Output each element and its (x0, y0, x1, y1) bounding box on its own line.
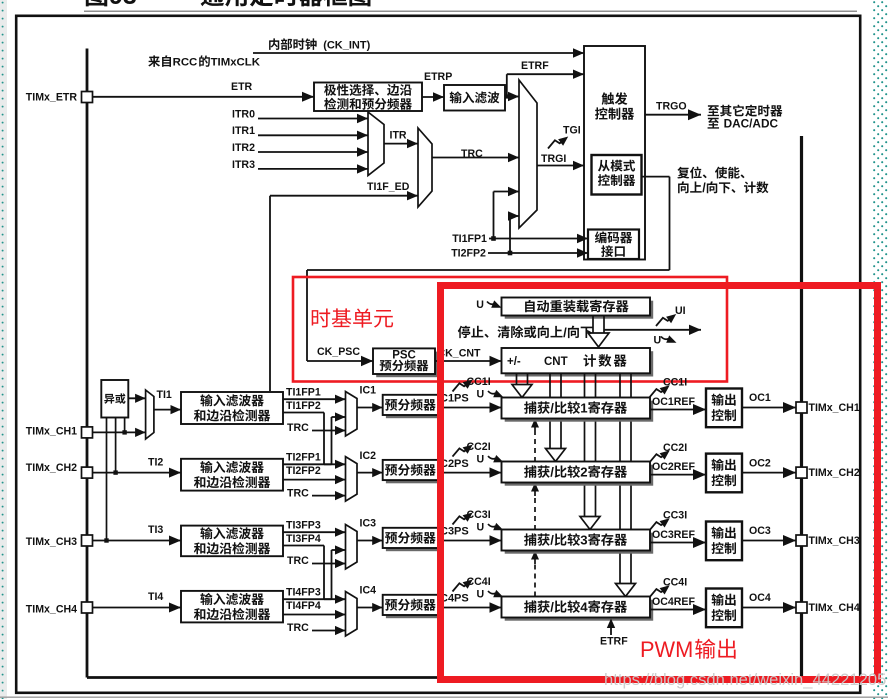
wire TI3FP3 (283, 528, 346, 537)
label TI2FP1 (286, 452, 321, 464)
icon CC2I zigzag right (650, 450, 670, 462)
svg-text:TIMx_CH1: TIMx_CH1 (26, 425, 77, 437)
label OC4REF (652, 596, 695, 608)
svg-text:CK_CNT: CK_CNT (438, 348, 481, 360)
label 内部时钟 (CK_INT) (269, 38, 370, 51)
label ITR0 (232, 108, 255, 120)
svg-text:U: U (477, 588, 485, 600)
label U row4 left (477, 588, 485, 600)
wire CK_PSC (307, 356, 373, 366)
icon CC4I zigzag right (650, 585, 670, 597)
wire IC2 output (357, 468, 383, 477)
svg-text:U: U (654, 335, 662, 347)
gate XOR 异或 (101, 380, 128, 418)
svg-text:TIMx_CH4: TIMx_CH4 (809, 602, 860, 614)
wire ITR1 (258, 131, 368, 140)
svg-text:U: U (477, 521, 485, 533)
wire XOR tap CH3 (106, 418, 108, 541)
svg-text:TGI: TGI (563, 125, 581, 137)
svg-text:OC3REF: OC3REF (652, 529, 695, 541)
svg-text:/: / (550, 401, 554, 416)
wire ITR3 (258, 164, 368, 173)
pin TIMx_CH1 (right) (796, 402, 860, 414)
mux IC1 select (346, 392, 358, 437)
svg-text:TRC: TRC (287, 487, 309, 499)
label UI (675, 305, 686, 317)
wire prescaler to 捕获/比较4寄存器 (438, 602, 502, 612)
label 停止、清除或向上/向下 (458, 325, 593, 340)
wire compare dashed CCR4 to CCR3 (531, 551, 539, 597)
svg-text:OC3: OC3 (749, 525, 771, 537)
svg-text:IC3: IC3 (360, 518, 377, 530)
bottom page edge line (0, 696, 888, 698)
pin TIMx_CH4 (right) (796, 602, 860, 614)
label CC4I right (663, 577, 687, 589)
wire prescaler to 捕获/比较3寄存器 (438, 535, 502, 545)
svg-text:TIMx_CH2: TIMx_CH2 (809, 467, 860, 479)
wire OC3 (742, 535, 796, 546)
pin TIMx_ETR (26, 91, 93, 103)
pin TIMx_CH3 (right) (796, 535, 860, 547)
register auto-reload 自动重装载寄存器 (502, 298, 654, 319)
block polarity selection 极性选择、边沿检测和预分频器 (314, 83, 422, 112)
label ETR (231, 81, 253, 93)
label TI3FP3 (286, 519, 321, 531)
block encoder interface 编码器接口 (588, 230, 639, 260)
wire TRC row2 (312, 491, 346, 500)
label OC4 (749, 592, 771, 604)
label TRGO (656, 101, 687, 113)
wire prescaler to 捕获/比较1寄存器 (438, 402, 502, 412)
svg-text:/: / (563, 325, 567, 340)
label CC1I right (663, 377, 687, 389)
icon CC3I zigzag right (650, 518, 670, 530)
icon UI zigzag (656, 314, 676, 326)
icon TGI zigzag (548, 137, 568, 149)
register 捕获/比较4寄存器 (502, 597, 654, 621)
junction TI2FP2 branch (508, 251, 513, 256)
label ETRF (521, 60, 549, 72)
caption 图93 通用定时器框图 (cut off) (86, 0, 371, 10)
label TI2FP2 (286, 465, 321, 477)
svg-text:TRGI: TRGI (541, 153, 566, 165)
icon U wave row3 left (488, 523, 504, 530)
pin TIMx_CH3 (left) (26, 535, 93, 548)
wire IC4 output (357, 603, 383, 612)
label U before ARR (476, 299, 484, 311)
block prescaler 4 预分频器 (383, 595, 441, 618)
wire OC2REF (650, 469, 706, 480)
icon CC4I zigzag left (453, 580, 473, 592)
svg-text:ETR: ETR (231, 81, 253, 93)
label U row2 left (477, 454, 485, 466)
label CK_CNT (438, 348, 481, 360)
wire TI2FP2 to encoder (488, 248, 588, 257)
wire XOR tap CH1 (124, 418, 126, 433)
icon U wave right (661, 335, 677, 342)
label TI1FP1 top (452, 233, 487, 245)
wire TRGI (537, 161, 584, 170)
label C4PS (440, 593, 469, 605)
svg-text:+/-: +/- (507, 356, 521, 368)
svg-text:ITR2: ITR2 (232, 142, 255, 154)
wire ETRP (422, 92, 444, 101)
label TI2 (148, 456, 163, 468)
bottom bus wire (87, 676, 802, 679)
label IC1 (360, 385, 377, 397)
wire TI4FP3 cross up (283, 545, 346, 599)
svg-text:TIMxCLK: TIMxCLK (211, 57, 261, 69)
label TI1 (157, 389, 172, 401)
wire update event U (604, 325, 701, 335)
label TI2FP2 top (451, 248, 486, 260)
svg-text:TIMx_CH2: TIMx_CH2 (26, 462, 77, 474)
wire CK_INT (253, 48, 584, 57)
mux trigger select (big trapezoid) (519, 80, 537, 228)
wire TRC to main mux (432, 153, 519, 162)
block output control 4 输出控制 (706, 589, 742, 628)
svg-text:UI: UI (675, 305, 686, 317)
label TRC top (461, 148, 483, 160)
block input filter 1 输入滤波器和边沿检测器 (181, 392, 283, 424)
wire compare dashed CCR2 to CCR1 (531, 419, 539, 463)
wire IC1 output (357, 403, 383, 412)
icon CC3I zigzag left (453, 513, 473, 525)
label 复位、使能、 (677, 167, 744, 179)
label TRC row1 (287, 422, 309, 434)
svg-text:IC2: IC2 (360, 450, 377, 462)
svg-text:C3PS: C3PS (440, 526, 469, 538)
mux ITR select (368, 112, 384, 176)
svg-text:ETRF: ETRF (600, 636, 628, 648)
label TI4FP4 (286, 600, 321, 612)
wire capture transfer CNT to CCR1 (double) (512, 373, 532, 397)
wire TRGO (645, 109, 701, 120)
svg-text:DAC/ADC: DAC/ADC (724, 117, 779, 131)
svg-text:ITR1: ITR1 (232, 125, 255, 137)
block input filter 4 输入滤波器和边沿检测器 (181, 591, 283, 623)
wire XOR output (128, 394, 145, 403)
label CC3I right (663, 510, 687, 522)
wire capture transfer CNT to CCR2 (double) (546, 373, 566, 461)
svg-text:ETRP: ETRP (424, 71, 452, 83)
svg-text:/: / (550, 465, 554, 480)
wire OC3REF (650, 537, 706, 548)
label TI1FP1 (286, 386, 321, 398)
label U update right (654, 335, 662, 347)
label IC3 (360, 518, 377, 530)
right pin bus wire (800, 136, 803, 678)
wire capture transfer CNT to CCR3 (double) (580, 373, 600, 529)
wire OC4REF (650, 604, 706, 615)
wire TI2 (93, 468, 182, 478)
wire prescaler to 捕获/比较2寄存器 (438, 467, 502, 477)
label TI1FP2 (286, 400, 321, 412)
wire TI1FP1 to encoder (489, 234, 588, 243)
svg-text:TI1: TI1 (157, 389, 172, 401)
label CC2I right (663, 442, 687, 454)
label 来自RCC的TIMxCLK (148, 55, 260, 68)
wire TRC row3 (312, 559, 346, 568)
wire TI1FP1 to trigger mux (494, 187, 520, 239)
register 捕获/比较3寄存器 (502, 530, 654, 554)
label 至 DAC/ADC (708, 117, 779, 131)
svg-text:C4PS: C4PS (440, 593, 469, 605)
svg-text:OC1REF: OC1REF (652, 396, 695, 408)
block prescaler PSC 预分频器 (373, 348, 438, 377)
label IC4 (360, 585, 377, 597)
label TI3FP4 (286, 533, 321, 545)
label ETRP (424, 71, 452, 83)
junction XOR-CH2 (113, 470, 117, 474)
svg-text:https://blog.csdn.net/weixin_4: https://blog.csdn.net/weixin_44221205 (604, 670, 886, 689)
block trigger controller 触发控制器 (584, 46, 645, 260)
svg-text:CNT: CNT (544, 356, 568, 368)
svg-text:TI2FP2: TI2FP2 (451, 248, 486, 260)
label U row1 left (477, 388, 485, 400)
wire TI1FP2 cross down (283, 413, 346, 469)
svg-text:TI1F_ED: TI1F_ED (367, 181, 410, 193)
left margin strip (0, 0, 7, 699)
caption underline (84, 10, 857, 12)
svg-text:TI1FP2: TI1FP2 (286, 400, 321, 412)
wire ETRF to CCR4 (607, 619, 615, 636)
label PWM输出 (red) (640, 637, 736, 662)
svg-text:TRC: TRC (287, 622, 309, 634)
watermark https://blog.csdn.net/weixin_44221205 (604, 670, 886, 689)
label ITR2 (232, 142, 255, 154)
svg-text:1: 1 (580, 401, 587, 416)
wire TI1F_ED (270, 191, 418, 391)
svg-text:TIMx_CH3: TIMx_CH3 (26, 536, 77, 548)
label 至其它定时器 (708, 105, 783, 117)
wire IC3 output (357, 536, 383, 545)
mux TRC select (418, 128, 432, 207)
svg-text:TI1FP1: TI1FP1 (286, 386, 321, 398)
svg-text:RCC: RCC (173, 57, 198, 69)
label OC2 (749, 457, 771, 469)
wire ARR to CNT (double) (588, 316, 609, 348)
svg-text:TRC: TRC (287, 555, 309, 567)
block output control 3 输出控制 (706, 522, 742, 561)
label TRC row4 (287, 622, 309, 634)
label TGI (563, 125, 581, 137)
junction TI1FP1 branch (491, 236, 496, 241)
block input filter 2 输入滤波器和边沿检测器 (181, 459, 283, 491)
label TI3 (148, 524, 163, 536)
wire OC1REF (650, 404, 706, 415)
mux IC3 select (346, 525, 358, 570)
svg-text:TI2FP2: TI2FP2 (286, 465, 321, 477)
wire TI2FP2 to trigger mux (508, 211, 519, 253)
svg-text:/: / (550, 600, 554, 615)
svg-text:TIMx_CH4: TIMx_CH4 (26, 603, 77, 615)
svg-text:TIMx_ETR: TIMx_ETR (26, 91, 78, 103)
svg-text:CK_PSC: CK_PSC (317, 346, 360, 358)
wire CH1 pin to mux (93, 428, 146, 437)
block prescaler 1 预分频器 (383, 395, 441, 418)
label CC1I left (467, 376, 491, 388)
wire TI4FP4 (283, 610, 346, 619)
block input filter 输入滤波 (444, 85, 505, 111)
junction XOR-CH3 (104, 538, 108, 542)
svg-text:PWM: PWM (640, 637, 693, 662)
svg-text:TIMx_CH3: TIMx_CH3 (809, 535, 860, 547)
pin TIMx_CH1 (left) (26, 425, 93, 438)
label TI4 (148, 591, 163, 603)
svg-text:U: U (477, 388, 485, 400)
wire ITR0 (258, 114, 368, 123)
wire TI1FP1 (283, 395, 346, 404)
svg-text:IC4: IC4 (360, 585, 377, 597)
label TRC row2 (287, 487, 309, 499)
svg-text:TIMx_CH1: TIMx_CH1 (809, 402, 860, 414)
block prescaler 2 预分频器 (383, 460, 441, 483)
mux TI1 select (146, 390, 154, 439)
svg-text:U: U (476, 299, 484, 311)
label ETRF bottom (600, 636, 628, 648)
label C2PS (440, 458, 469, 470)
pin TIMx_CH4 (left) (26, 602, 93, 615)
wire XOR tap CH2 (115, 418, 117, 473)
label OC1REF (652, 396, 695, 408)
svg-text:OC2: OC2 (749, 457, 771, 469)
wire capture transfer CNT to CCR4 (double) (616, 373, 636, 596)
wire TI2FP1 cross up (283, 412, 346, 464)
svg-text:ITR: ITR (390, 130, 407, 142)
svg-text:TI4FP3: TI4FP3 (286, 586, 321, 598)
svg-text:TI3FP3: TI3FP3 (286, 519, 321, 531)
svg-text:C1PS: C1PS (440, 393, 469, 405)
wire ITR to TRC mux (384, 139, 418, 148)
wire TI2FP2 (283, 475, 346, 484)
label OC3REF (652, 529, 695, 541)
svg-text:ITR3: ITR3 (232, 159, 255, 171)
label CC4I left (467, 576, 491, 588)
left pin bus wire (86, 49, 89, 678)
wire TI4 (93, 603, 182, 613)
svg-text:/: / (550, 533, 554, 548)
icon U wave row4 left (488, 590, 504, 597)
svg-text:2: 2 (580, 465, 587, 480)
label ITR3 (232, 159, 255, 171)
svg-text:/: / (702, 181, 706, 195)
svg-text:TI2: TI2 (148, 456, 163, 468)
block input filter 3 输入滤波器和边沿检测器 (181, 526, 283, 557)
icon U wave row2 left (488, 455, 504, 462)
svg-text:C2PS: C2PS (440, 458, 469, 470)
annotation red box 时基单元 region (293, 277, 727, 382)
label CC2I left (467, 441, 491, 453)
icon U wave row1 left (488, 390, 504, 397)
label TI1F_ED (367, 181, 410, 193)
svg-text:OC2REF: OC2REF (652, 461, 695, 473)
wire TI1 mux output (154, 405, 181, 414)
register 捕获/比较1寄存器 (502, 398, 654, 422)
svg-text:OC1: OC1 (749, 392, 771, 404)
label OC1 (749, 392, 771, 404)
counter CNT 计数器 (502, 348, 654, 377)
label 向上/向下、计数 (678, 181, 768, 195)
wire TI3FP4 cross down (283, 546, 346, 604)
icon CC2I zigzag left (453, 445, 473, 457)
wire ETR (93, 92, 315, 102)
pin TIMx_CH2 (left) (26, 462, 93, 478)
label CC3I left (467, 509, 491, 521)
svg-text:ETRF: ETRF (521, 60, 549, 72)
icon U wave into ARR (487, 300, 502, 307)
label OC3 (749, 525, 771, 537)
label TRC row3 (287, 555, 309, 567)
svg-text:TRC: TRC (287, 422, 309, 434)
mux IC4 select (346, 592, 358, 637)
svg-text:U: U (477, 454, 485, 466)
svg-text:OC4: OC4 (749, 592, 771, 604)
wire CK_CNT (435, 356, 502, 366)
svg-text:ITR0: ITR0 (232, 108, 255, 120)
label TRGI (541, 153, 566, 165)
register 捕获/比较2寄存器 (502, 462, 654, 486)
svg-text:PSC: PSC (392, 350, 416, 362)
icon CC1I zigzag right (650, 385, 670, 397)
label ITR (390, 130, 407, 142)
wire TI3 (93, 536, 182, 546)
label C1PS (440, 393, 469, 405)
wire TRC row1 (312, 426, 346, 435)
svg-text:3: 3 (580, 533, 587, 548)
block output control 1 输出控制 (706, 389, 742, 428)
label U row3 left (477, 521, 485, 533)
wire TRC row4 (312, 626, 346, 635)
label C3PS (440, 526, 469, 538)
block output control 2 输出控制 (706, 454, 742, 493)
block prescaler 3 预分频器 (383, 528, 441, 551)
label OC2REF (652, 461, 695, 473)
label 时基单元 (red) (312, 308, 393, 327)
junction XOR-CH1 (122, 430, 126, 434)
block slave mode controller 从模式控制器 (592, 155, 642, 195)
svg-text:TI2FP1: TI2FP1 (286, 452, 321, 464)
annotation thick red box PWM region (441, 286, 878, 680)
svg-text:93: 93 (109, 0, 137, 10)
junction ETRF branch (505, 94, 509, 98)
wire OC4 (742, 602, 796, 613)
wire slave mode to prescaler clock (307, 177, 670, 361)
svg-text:TI4FP4: TI4FP4 (286, 600, 321, 612)
wire OC1 (742, 402, 796, 413)
mux IC2 select (346, 457, 358, 502)
label IC2 (360, 450, 377, 462)
wire ITR2 (258, 147, 368, 156)
svg-text:IC1: IC1 (360, 385, 377, 397)
svg-text:TI4: TI4 (148, 591, 163, 603)
svg-text:TRGO: TRGO (656, 101, 687, 113)
label CK_PSC (317, 346, 360, 358)
wire OC2 (742, 467, 796, 478)
pin TIMx_CH2 (right) (796, 467, 860, 479)
svg-text:4: 4 (580, 600, 588, 615)
svg-text:TI1FP1: TI1FP1 (452, 233, 487, 245)
wire compare dashed CCR3 to CCR2 (531, 483, 539, 531)
svg-text:TI3: TI3 (148, 524, 163, 536)
svg-text:OC4REF: OC4REF (652, 596, 695, 608)
label ITR1 (232, 125, 255, 137)
wire ETRF to trigger controller (505, 70, 584, 102)
svg-text:TI3FP4: TI3FP4 (286, 533, 321, 545)
svg-text:(CK_INT): (CK_INT) (323, 39, 370, 51)
label TI4FP3 (286, 586, 321, 598)
icon CC1I zigzag left (453, 380, 473, 392)
